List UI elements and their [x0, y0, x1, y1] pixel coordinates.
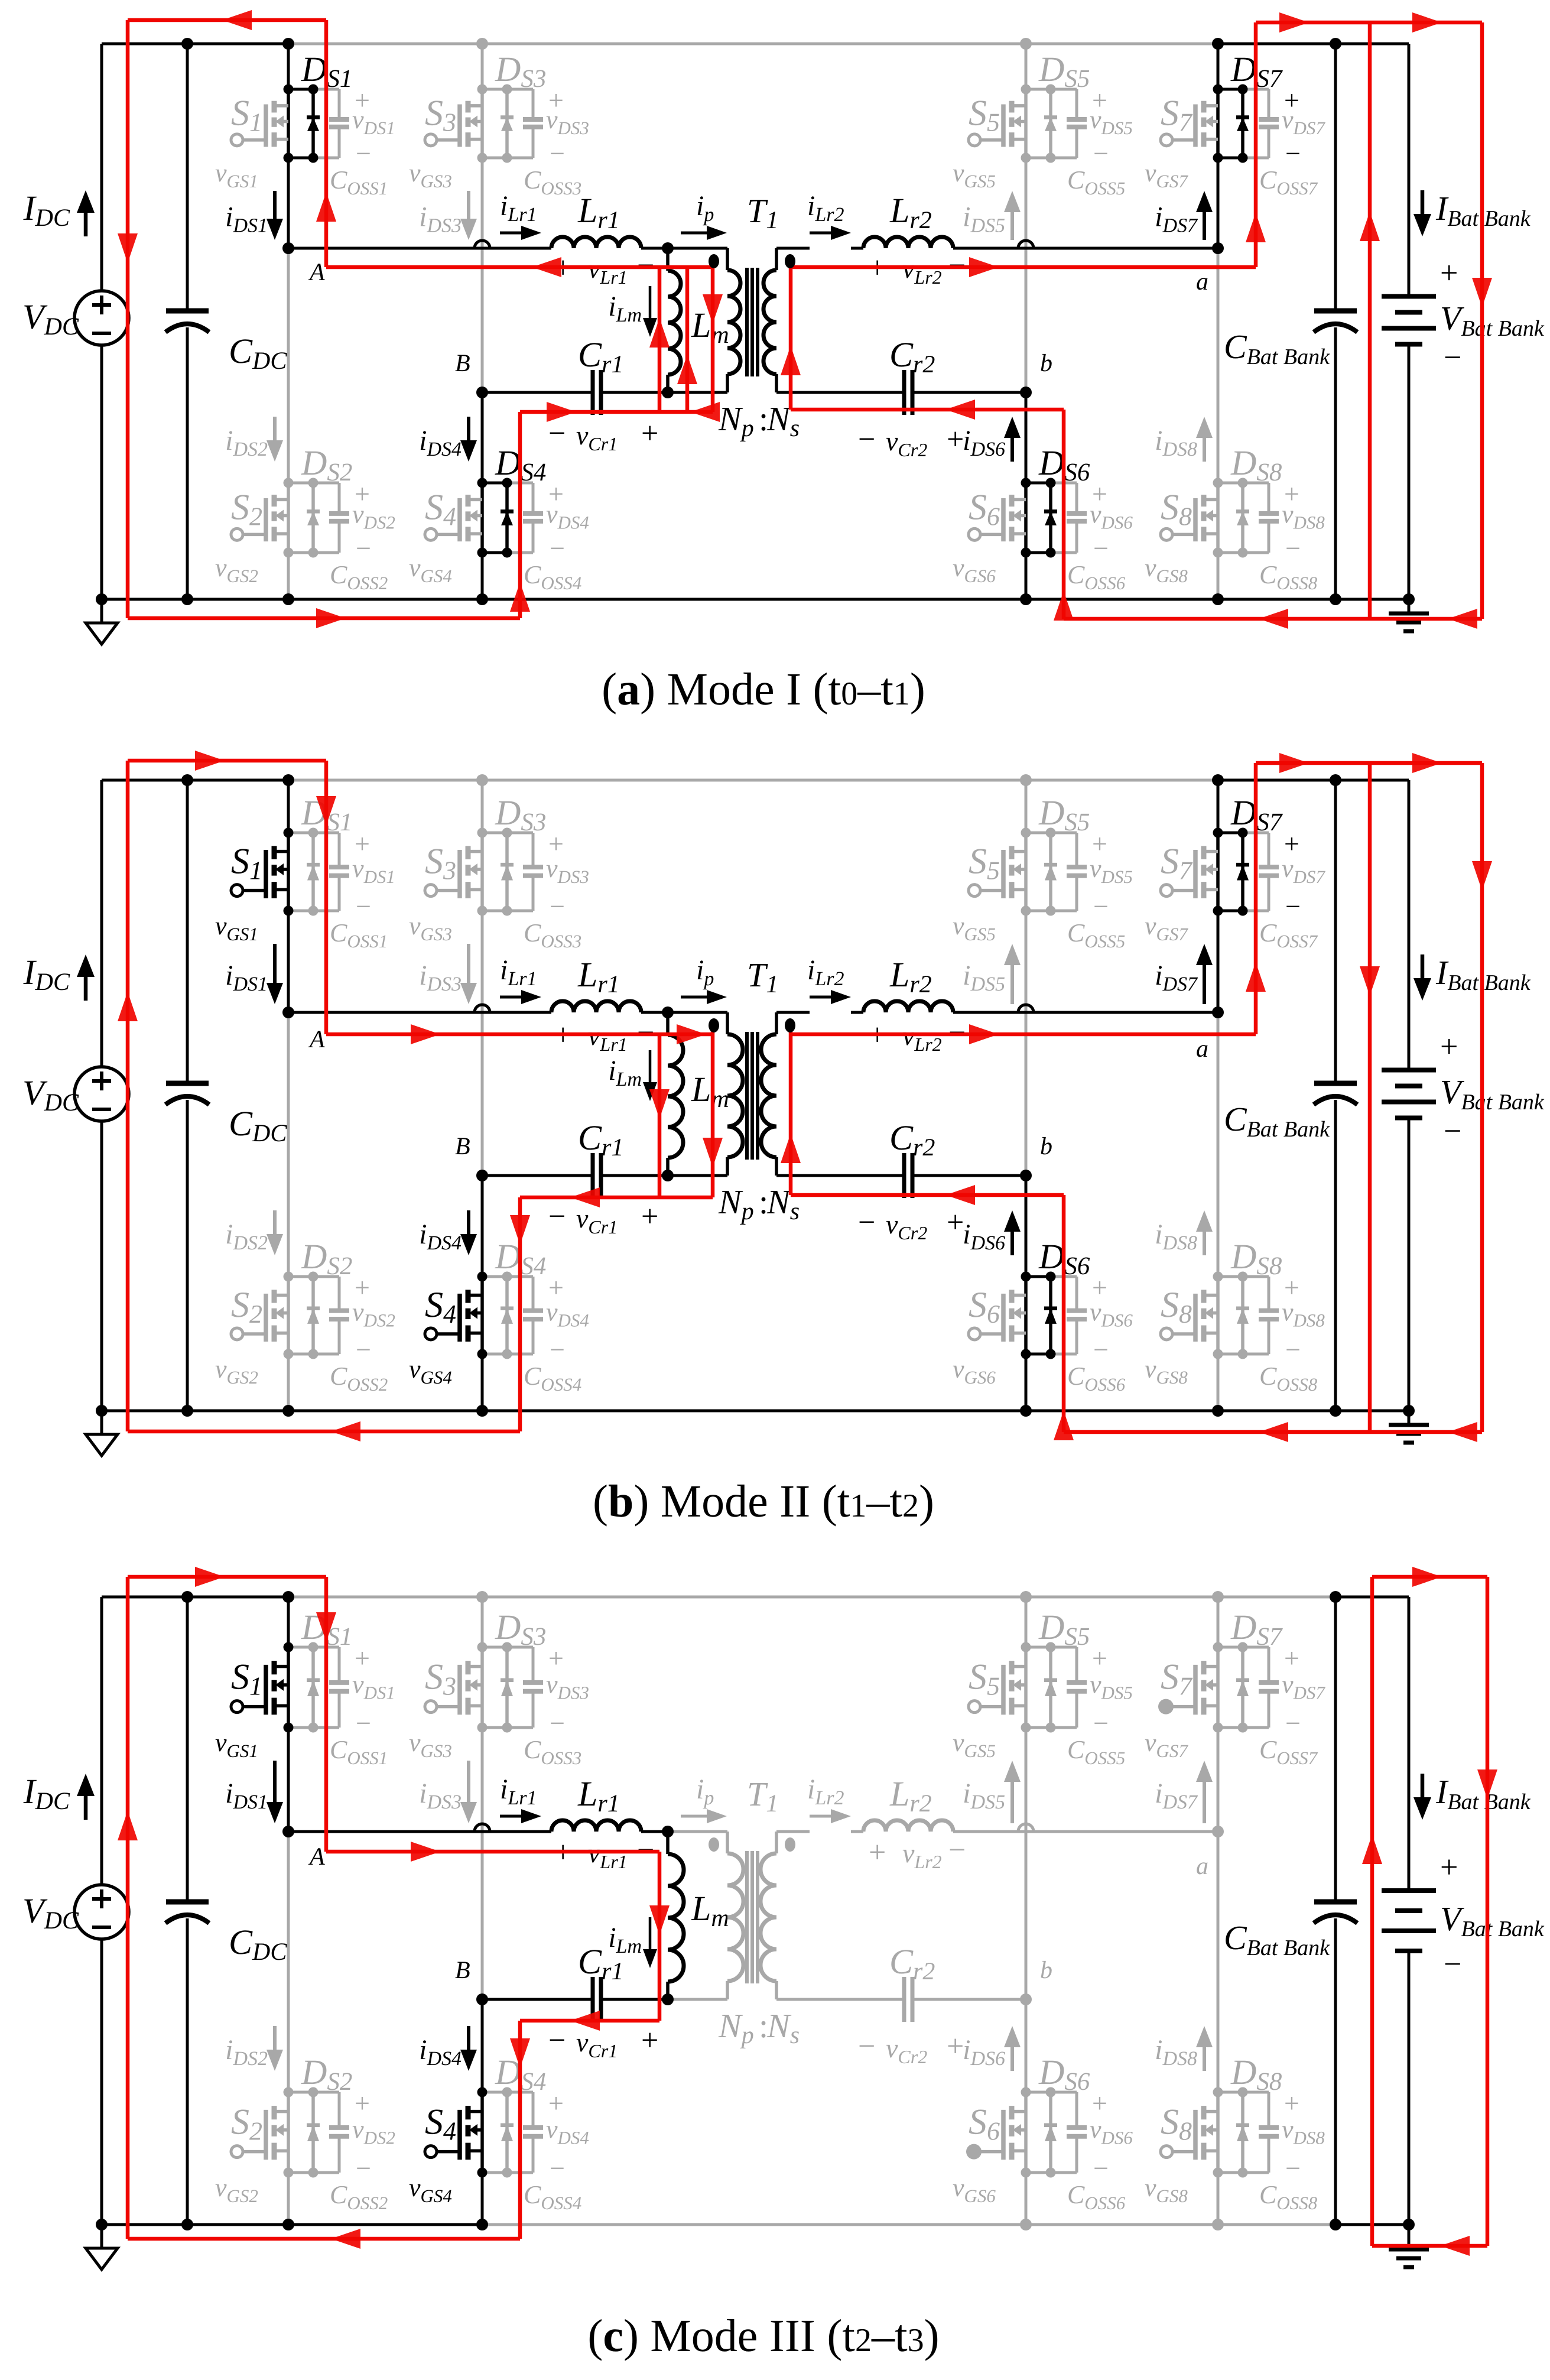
- svg-text:+: +: [548, 2088, 564, 2118]
- label iDS7 with current arrow: [1203, 212, 1206, 240]
- svg-text:B: B: [455, 350, 470, 377]
- label iLm with arrow: [649, 1917, 652, 1949]
- svg-text:−: −: [550, 1708, 565, 1738]
- label iDS6 with current arrow: [1010, 438, 1014, 462]
- label iLr1 with arrow: [500, 232, 521, 235]
- wire S7 source to node a: [1217, 911, 1220, 1012]
- wire node a rail (Lr2 side): [776, 1830, 810, 1833]
- wire Lr1 to transformer, hop over S3/S4 leg: [641, 1011, 668, 1014]
- transistor S2 MOSFET: [287, 483, 290, 553]
- transistor S8 MOSFET: [1216, 2092, 1220, 2173]
- transistor S5 MOSFET: [1024, 833, 1028, 911]
- wire cell S8 bottom: [1218, 2171, 1243, 2174]
- wire battery branch: [1408, 1597, 1411, 1891]
- wire cell S5 top: [1026, 88, 1051, 91]
- wire battery branch: [1408, 780, 1411, 1070]
- svg-text:−: −: [1093, 1708, 1109, 1738]
- capacitor COSS4: [532, 2092, 535, 2128]
- label iDS2 with current arrow: [273, 1210, 277, 1234]
- wire cell S6 top: [1026, 482, 1051, 485]
- diode DS1 (body diode): [311, 89, 315, 158]
- capacitor COSS7: [1268, 1647, 1270, 1683]
- red: primary loop via S1/S4: [128, 1575, 326, 1579]
- wire Lr2 to node a, hop over S5/S6 leg: [953, 1830, 1218, 1833]
- polarity dot secondary: [785, 254, 795, 268]
- wire leg S2 source stub: [287, 553, 290, 599]
- diode DS5 (body diode): [1049, 1647, 1052, 1728]
- ground (triangle, DC side): [100, 1411, 103, 1434]
- label IDC with current arrow: [84, 213, 88, 236]
- wire cell S7 top: [1218, 832, 1243, 835]
- wire Cr2 to node b: [912, 1174, 1026, 1177]
- capacitor Cr2: [902, 1153, 906, 1198]
- wire cell S7 top: [1218, 1646, 1243, 1649]
- red: battery circulation loop: [1370, 1577, 1374, 2246]
- svg-text:+: +: [1440, 1029, 1458, 1064]
- transistor S1 MOSFET: [287, 1647, 290, 1728]
- diode DS4 (body diode): [505, 2092, 509, 2173]
- junction dots cell S5: [1021, 85, 1031, 95]
- diode DS7 (body diode): [1241, 89, 1244, 158]
- svg-text:a: a: [1196, 1853, 1208, 1880]
- inductor Lr2: [863, 1820, 953, 1832]
- svg-text:−: −: [1093, 1335, 1109, 1365]
- voltage source VDC: [74, 291, 129, 345]
- wire cell S7 bottom: [1218, 910, 1243, 913]
- diode DS6 (body diode): [1049, 1277, 1052, 1354]
- transistor S1 MOSFET: [287, 89, 290, 158]
- svg-text:−: −: [548, 2024, 566, 2057]
- svg-text:−: −: [1444, 340, 1461, 375]
- label iDS4 with current arrow: [467, 1210, 470, 1234]
- wire cell S2 bottom: [288, 551, 313, 554]
- svg-text:a: a: [1196, 1035, 1208, 1063]
- wire node A vertical to S2 drain (inactive): [287, 1832, 290, 2092]
- wire node A rail: [288, 1011, 551, 1014]
- label IBatBank with current arrow: [1421, 954, 1425, 978]
- svg-text:+: +: [1284, 2088, 1299, 2118]
- label ip with arrow: [681, 232, 707, 235]
- wire cell S8 top: [1218, 2091, 1243, 2094]
- transformer T1 secondary winding: [775, 248, 778, 270]
- diode DS5 (body diode): [1049, 833, 1052, 911]
- svg-text:b: b: [1040, 350, 1052, 377]
- wire S7 source to node a: [1217, 1728, 1220, 1832]
- wire cell S3 top: [482, 1646, 507, 1649]
- diode DS4 (body diode): [505, 1277, 509, 1354]
- inductor Lm: [666, 1832, 670, 1854]
- junction dots cell S5: [1021, 1642, 1031, 1652]
- polarity dot primary: [709, 1018, 719, 1032]
- wire node A rail: [288, 1830, 551, 1833]
- svg-text:−: −: [550, 138, 565, 168]
- capacitor COSS2: [338, 483, 341, 514]
- wire VDC branch vertical: [100, 1597, 103, 1885]
- label iDS1 with current arrow: [273, 191, 277, 219]
- capacitor Cr2: [902, 370, 906, 415]
- wire cell S4 bottom: [482, 1353, 507, 1356]
- wire node b rail: [776, 1998, 904, 2001]
- wire cell S1 bottom: [288, 157, 313, 160]
- junction dots: [181, 774, 193, 786]
- label iDS8 with current arrow: [1203, 2047, 1206, 2071]
- inductor Lr1: [551, 1001, 641, 1012]
- wire node b rail: [776, 1174, 904, 1177]
- svg-text:−: −: [1444, 1113, 1461, 1149]
- wire cell S1 top: [288, 88, 313, 91]
- voltage source VDC: [74, 1067, 129, 1121]
- wire node B rail left: [482, 391, 593, 394]
- ground (triangle, DC side): [100, 2225, 103, 2248]
- wire node A vertical (S1 source to A): [287, 158, 290, 248]
- label iDS3 with current arrow: [467, 191, 470, 219]
- red: primary loop via S1/S4: [128, 759, 326, 763]
- transistor S3 MOSFET: [480, 1647, 484, 1728]
- wire top rail (middle, inactive gray): [288, 43, 1218, 46]
- svg-text:+: +: [869, 1836, 886, 1869]
- wire leg S2 source stub: [287, 2173, 290, 2225]
- wire leg S2 source stub: [287, 1354, 290, 1411]
- transistor S5 MOSFET: [1024, 89, 1028, 158]
- svg-text:(c) Mode III (t2–t3): (c) Mode III (t2–t3): [587, 2310, 939, 2361]
- transformer T1 primary winding: [726, 248, 729, 270]
- diode DS2 (body diode): [311, 2092, 315, 2173]
- red: secondary loop via DS7/DS6: [789, 262, 793, 410]
- transistor S7 MOSFET: [1216, 1647, 1220, 1728]
- wire leg S1 drain stub: [287, 44, 290, 89]
- junction dots cell S5: [1021, 828, 1031, 838]
- wire cell S8 top: [1218, 482, 1243, 485]
- wire cell S3 top: [482, 88, 507, 91]
- red: primary loop via DS1/DS4: [128, 18, 326, 22]
- wire S3 source to node B (inactive): [481, 911, 484, 1176]
- transistor S7 MOSFET: [1216, 89, 1220, 158]
- transistor S3 MOSFET: [480, 833, 484, 911]
- wire cell S5 bottom: [1026, 910, 1051, 913]
- wire node B to S4 drain: [481, 1999, 484, 2092]
- svg-text:−: −: [550, 1335, 565, 1365]
- junction dots cell S2: [284, 1272, 294, 1282]
- voltage source VDC: [74, 1885, 129, 1939]
- junction dots cell S4: [477, 1272, 488, 1282]
- capacitor COSS5: [1075, 1647, 1078, 1683]
- svg-text:−: −: [1285, 2153, 1301, 2183]
- wire S5 source to node b (inactive): [1025, 158, 1028, 392]
- wire node A rail: [288, 247, 551, 250]
- svg-text:−: −: [1093, 891, 1109, 921]
- wire cell S3 bottom: [482, 157, 507, 160]
- diode DS1 (body diode): [311, 833, 315, 911]
- label iDS8 with current arrow: [1203, 438, 1206, 462]
- wire cell S3 bottom: [482, 1726, 507, 1729]
- junction dots cell S3: [477, 1642, 488, 1652]
- diode DS7 (body diode): [1241, 833, 1244, 911]
- ground (earth, battery side): [1408, 1411, 1411, 1425]
- junction dots cell S6: [1021, 2087, 1031, 2097]
- svg-text:−: −: [1285, 138, 1301, 168]
- transistor S3 MOSFET: [480, 89, 484, 158]
- svg-text:(b) Mode II (t1–t2): (b) Mode II (t1–t2): [593, 1475, 934, 1527]
- label iLr1 with arrow: [500, 996, 521, 999]
- svg-text:−: −: [1093, 138, 1109, 168]
- transistor S6 MOSFET: [1024, 483, 1028, 553]
- wire node A vertical (S1 source to A): [287, 1728, 290, 1832]
- wire cell S1 bottom: [288, 1726, 313, 1729]
- label iDS5 with current arrow: [1010, 212, 1014, 240]
- wire node B to S4 drain: [481, 392, 484, 483]
- label iLr2 with arrow: [810, 1815, 831, 1818]
- svg-text:−: −: [1444, 1946, 1461, 1982]
- wire cell S2 top: [288, 1275, 313, 1278]
- capacitor COSS8: [1268, 1277, 1270, 1311]
- label iDS5 with current arrow: [1010, 1782, 1014, 1823]
- svg-text:+: +: [355, 2088, 370, 2118]
- wire node B to S4 drain: [481, 1176, 484, 1277]
- wire cell S1 bottom: [288, 910, 313, 913]
- wire bottom rail: [102, 1410, 1409, 1413]
- label IDC with current arrow: [84, 1796, 88, 1820]
- capacitor CDC: [166, 309, 209, 314]
- capacitor COSS3: [532, 1647, 535, 1683]
- wire node A vertical (S1 source to A): [287, 911, 290, 1012]
- label ip with arrow: [681, 1815, 707, 1818]
- label iDS6 with current arrow: [1010, 1232, 1014, 1255]
- transformer T1 core: [745, 1032, 749, 1160]
- transformer T1 primary winding: [726, 1012, 729, 1034]
- capacitor CBatBank: [1314, 1900, 1357, 1905]
- capacitor Cr1: [591, 1153, 595, 1198]
- junction dots cell S3: [477, 828, 488, 838]
- svg-text:−: −: [1285, 891, 1301, 921]
- svg-text:A: A: [308, 1843, 325, 1871]
- wire node B rail left: [482, 1998, 593, 2001]
- transistor S5 MOSFET: [1024, 1647, 1028, 1728]
- ground (earth, battery side): [1408, 599, 1411, 613]
- wire leg S4 source stub: [481, 553, 484, 599]
- diode DS8 (body diode): [1241, 2092, 1244, 2173]
- svg-text:−: −: [548, 417, 566, 450]
- label iDS8 with current arrow: [1203, 1232, 1206, 1255]
- wire VDC branch vertical: [100, 44, 103, 291]
- transformer T1 primary winding: [726, 1832, 729, 1853]
- junction dots cell S4: [477, 478, 488, 488]
- label iLm with arrow: [649, 286, 652, 318]
- capacitor COSS6: [1075, 1277, 1078, 1311]
- battery VBatBank: [1382, 1888, 1436, 1893]
- label iDS7 with current arrow: [1203, 965, 1206, 1004]
- transistor S2 MOSFET: [287, 1277, 290, 1354]
- wire Cr2 to node b: [912, 1998, 1026, 2001]
- hop of node A rail over leg 2: [475, 241, 490, 248]
- wire battery branch: [1408, 44, 1411, 297]
- diode DS6 (body diode): [1049, 2092, 1052, 2173]
- svg-text:+: +: [947, 2030, 964, 2063]
- wire cell S3 bottom: [482, 910, 507, 913]
- wire node a to S8 drain (inactive): [1217, 1832, 1220, 2092]
- wire S5 source to node b (inactive): [1025, 911, 1028, 1176]
- wire leg S4 source stub: [481, 1354, 484, 1411]
- wire CBatBank branch: [1334, 44, 1337, 311]
- red: secondary loop via DS7/DS6: [789, 1027, 793, 1195]
- wire Lr1 to transformer, hop over S3/S4 leg: [641, 1830, 668, 1833]
- wire CBatBank branch: [1334, 780, 1337, 1083]
- wire cell S4 top: [482, 482, 507, 485]
- svg-text:−: −: [1093, 2153, 1109, 2183]
- wire leg S1 drain stub: [287, 1597, 290, 1647]
- junction dots cell S2: [284, 478, 294, 488]
- diode DS6 (body diode): [1049, 483, 1052, 553]
- capacitor COSS6: [1075, 483, 1078, 514]
- label iLr2 with arrow: [810, 996, 831, 999]
- capacitor COSS1: [338, 1647, 341, 1683]
- polarity dot primary: [709, 254, 719, 268]
- ground (triangle, DC side): [100, 599, 103, 623]
- wire cell S1 top: [288, 1646, 313, 1649]
- battery VBatBank: [1382, 294, 1436, 299]
- svg-text:+: +: [641, 1200, 658, 1233]
- transistor S6 MOSFET: [1024, 1277, 1028, 1354]
- wire S3 source to node B (inactive): [481, 158, 484, 392]
- transistor S8 MOSFET: [1216, 1277, 1220, 1354]
- capacitor COSS6: [1075, 2092, 1078, 2128]
- transformer T1 core: [745, 268, 749, 376]
- diode DS8 (body diode): [1241, 483, 1244, 553]
- capacitor CDC: [166, 1900, 209, 1905]
- capacitor COSS2: [338, 1277, 341, 1311]
- svg-text:−: −: [550, 533, 565, 563]
- junction dots cell S8: [1213, 1272, 1223, 1282]
- label IBatBank with current arrow: [1421, 190, 1425, 214]
- inductor Lr2: [863, 1001, 953, 1012]
- wire node B rail right: [601, 1998, 668, 2001]
- transistor S1 MOSFET: [287, 833, 290, 911]
- diode DS3 (body diode): [505, 1647, 509, 1728]
- svg-text:+: +: [641, 2024, 658, 2057]
- diode DS3 (body diode): [505, 89, 509, 158]
- svg-text:+: +: [1440, 255, 1458, 291]
- wire cell S3 top: [482, 832, 507, 835]
- transistor S6 MOSFET: [1024, 2092, 1028, 2173]
- wire node a rail (Lr2 side): [776, 247, 810, 250]
- wire CDC branch: [186, 780, 189, 1083]
- wire leg S6 source stub: [1025, 1354, 1028, 1411]
- junction dots cell S1: [284, 828, 294, 838]
- label ip with arrow: [681, 996, 707, 999]
- hop of node a rail over leg 3: [1018, 241, 1034, 248]
- capacitor COSS4: [532, 1277, 535, 1311]
- diode DS8 (body diode): [1241, 1277, 1244, 1354]
- svg-text:−: −: [858, 1206, 875, 1239]
- polarity dot secondary: [785, 1018, 795, 1032]
- junction dots cell S1: [284, 1642, 294, 1652]
- wire cell S6 bottom: [1026, 2171, 1051, 2174]
- junction dots cell S8: [1213, 478, 1223, 488]
- wire node b rail: [776, 391, 904, 394]
- svg-text:b: b: [1040, 1957, 1052, 1984]
- wire cell S5 bottom: [1026, 157, 1051, 160]
- svg-text:−: −: [550, 2153, 565, 2183]
- wire leg S8 source stub: [1217, 553, 1220, 599]
- svg-text:−: −: [356, 138, 371, 168]
- label iDS1 with current arrow: [273, 944, 277, 983]
- svg-text:−: −: [548, 1200, 566, 1233]
- capacitor CBatBank: [1314, 309, 1357, 314]
- label iDS3 with current arrow: [467, 944, 470, 983]
- polarity dot primary: [709, 1837, 719, 1852]
- capacitor COSS8: [1268, 483, 1270, 514]
- svg-text:+: +: [947, 423, 964, 456]
- transformer T1 secondary winding: [775, 1012, 778, 1034]
- capacitor COSS3: [532, 833, 535, 867]
- hop of node A rail over leg 2: [475, 1824, 490, 1832]
- wire cell S4 bottom: [482, 2171, 507, 2174]
- svg-text:−: −: [550, 891, 565, 921]
- svg-text:−: −: [356, 1335, 371, 1365]
- transformer T1 secondary winding: [775, 1832, 778, 1853]
- wire node B rail left: [482, 1174, 593, 1177]
- hop of node a rail over leg 3: [1018, 1824, 1034, 1832]
- wire cell S5 top: [1026, 1646, 1051, 1649]
- wire cell S2 top: [288, 482, 313, 485]
- inductor Lm: [666, 248, 670, 271]
- label iDS2 with current arrow: [273, 417, 277, 440]
- svg-text:+: +: [641, 417, 658, 450]
- wire cell S8 bottom: [1218, 551, 1243, 554]
- junction dots cell S2: [284, 2087, 294, 2097]
- svg-text:−: −: [356, 1708, 371, 1738]
- transistor S4 MOSFET: [480, 483, 484, 553]
- wire cell S5 top: [1026, 832, 1051, 835]
- capacitor CBatBank: [1314, 1081, 1357, 1086]
- wire cell S6 bottom: [1026, 551, 1051, 554]
- wire node B rail right: [601, 391, 668, 394]
- wire leg S6 source stub: [1025, 553, 1028, 599]
- wire leg S5 drain stub: [1025, 780, 1028, 833]
- wire Lr2 to node a, hop over S5/S6 leg: [953, 1011, 1218, 1014]
- diode DS2 (body diode): [311, 1277, 315, 1354]
- wire bottom rail: [102, 2223, 482, 2226]
- wire leg S8 source stub: [1217, 2173, 1220, 2225]
- wire cell S8 top: [1218, 1275, 1243, 1278]
- svg-text:+: +: [1284, 1643, 1299, 1673]
- wire top rail (middle, inactive gray): [288, 1596, 1335, 1599]
- svg-text:−: −: [948, 1833, 966, 1867]
- svg-text:A: A: [308, 259, 325, 286]
- wire cell S1 top: [288, 832, 313, 835]
- junction dots cell S4: [477, 2087, 488, 2097]
- capacitor CDC: [166, 1081, 209, 1086]
- label iDS7 with current arrow: [1203, 1782, 1206, 1823]
- wire S7 source to node a: [1217, 158, 1220, 248]
- wire leg S7 drain stub: [1217, 1597, 1220, 1647]
- inductor Lr2: [863, 237, 953, 248]
- junction dots cell S6: [1021, 478, 1031, 488]
- ground (earth, battery side): [1408, 2225, 1411, 2249]
- wire leg S3 drain stub: [481, 1597, 484, 1647]
- wire Lr2 to node a, hop over S5/S6 leg: [953, 247, 1218, 250]
- svg-text:−: −: [356, 2153, 371, 2183]
- wire top rail (DC side, black): [102, 1596, 288, 1599]
- wire node b to S6 drain: [1025, 1176, 1028, 1277]
- diode DS7 (body diode): [1241, 1647, 1244, 1728]
- wire node A vertical to S2 drain (inactive): [287, 248, 290, 483]
- capacitor Cr2: [902, 1977, 906, 2022]
- svg-text:B: B: [455, 1133, 470, 1160]
- svg-text:−: −: [858, 423, 875, 456]
- junction dots cell S6: [1021, 1272, 1031, 1282]
- wire top rail (battery side, black): [1335, 1596, 1409, 1599]
- svg-text:+: +: [1092, 2088, 1107, 2118]
